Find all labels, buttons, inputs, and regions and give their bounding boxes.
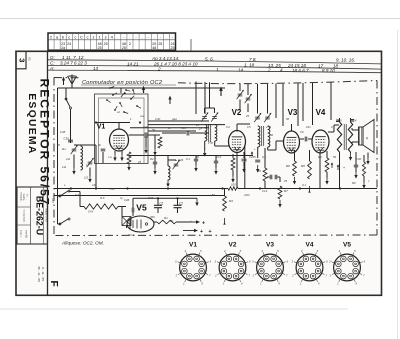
grounds mid [145, 146, 147, 150]
svg-text:pad: pad [171, 117, 177, 121]
svg-text:B.: B. [365, 136, 369, 139]
svg-text:111: 111 [62, 147, 67, 151]
ground d2 [195, 164, 197, 168]
svg-text:7 8.: 7 8. [249, 57, 257, 62]
wire V1 plate [118, 123, 120, 130]
wire top feed e [330, 82, 332, 120]
svg-text:1: 1 [216, 67, 219, 72]
speaker hatch [359, 127, 361, 145]
wire CV1 down [73, 155, 75, 169]
svg-text:C38: C38 [60, 130, 66, 134]
svg-text:1 11. 7. 12.: 1 11. 7. 12. [62, 55, 85, 60]
title block divider [30, 187, 32, 244]
svg-text:25: 25 [283, 179, 288, 183]
svg-text:Ao 3.4.13.14.: Ao 3.4.13.14. [151, 56, 179, 61]
speaker frame [359, 127, 364, 145]
svg-text:20: 20 [56, 143, 61, 147]
svg-text:c38: c38 [92, 183, 97, 187]
schematic frame dashed border bottom [54, 234, 377, 237]
arrow mark top [220, 88, 222, 96]
variable capacitor CV1 [72, 148, 77, 150]
ground below resistor [128, 163, 130, 167]
IF2 secondary coil [268, 126, 270, 147]
svg-text:14: 14 [238, 67, 244, 72]
ground IF1 [204, 149, 206, 153]
wire R3 top [224, 189, 226, 197]
wire V2 cathode [236, 153, 238, 189]
svg-text:V3: V3 [266, 242, 274, 249]
wire V3 bottoms [294, 150, 296, 161]
svg-text:0,1: 0,1 [186, 157, 190, 161]
svg-text:5. 6.: 5. 6. [205, 56, 214, 61]
wire B+ bus left [54, 188, 229, 190]
svg-text:125: 125 [51, 198, 55, 203]
capacitor C36 [68, 139, 73, 141]
wire IF2 down [257, 147, 259, 158]
tube socket V5 [334, 254, 361, 281]
mains switch upper [60, 191, 68, 196]
capacitor d2 [194, 158, 198, 160]
svg-text:111: 111 [66, 157, 71, 161]
svg-text:C: C [80, 35, 83, 40]
capacitor OT a [336, 119, 340, 121]
wire antenna lead [71, 83, 73, 88]
band switch contacts [106, 99, 108, 101]
pilot lamp [122, 217, 131, 226]
capacitor C205 [255, 159, 260, 161]
svg-text:C26: C26 [178, 158, 184, 162]
svg-text:V3: V3 [288, 108, 298, 117]
wire V2 k r [232, 154, 234, 158]
capacitor V4 grid [304, 137, 306, 142]
svg-text:.: . [142, 35, 143, 40]
svg-text:OC2: OC2 [128, 233, 134, 237]
svg-text:l.p: l.p [120, 196, 123, 200]
wire top bus [58, 87, 226, 89]
svg-text:10n: 10n [306, 125, 311, 129]
socket pin labels V2 [224, 279, 226, 282]
ground d4 [355, 171, 357, 175]
svg-text:R1: R1 [170, 219, 174, 223]
tube socket V4 [296, 254, 323, 281]
wire V2 bypass [243, 152, 245, 158]
svg-text:R7: R7 [284, 189, 288, 193]
wire V4 top [312, 83, 314, 125]
socket pin labels V3 [262, 279, 264, 282]
resistor R7 [278, 186, 282, 199]
ground V1 cathode [114, 154, 116, 158]
wire V1 cathode [114, 151, 116, 154]
svg-text:mayo-5-55: mayo-5-55 [45, 208, 49, 222]
svg-text:2: 2 [157, 67, 161, 72]
variable capacitor osc [174, 163, 179, 165]
svg-text:s2: s2 [117, 110, 120, 114]
svg-text:+: + [202, 221, 205, 227]
capacitor pair V3 [269, 175, 271, 180]
svg-text:R8: R8 [301, 164, 305, 168]
wire HT bus [152, 197, 197, 199]
wire R1 to arrow [176, 221, 189, 223]
socket pin labels V4 [301, 279, 303, 282]
wire d3 [215, 156, 217, 162]
capacitor C46 [131, 208, 133, 212]
IF2 primary coil [258, 126, 260, 147]
wire heater bus [54, 195, 226, 197]
svg-text:Comprobado: Comprobado [23, 210, 26, 223]
svg-text:C1: C1 [160, 201, 164, 205]
tube V5 [127, 216, 154, 232]
socket pin labels V5 [339, 279, 341, 282]
svg-text:c: c [74, 35, 76, 40]
wire IF2 sec to V3 [267, 147, 269, 150]
wire top feed ab [195, 108, 197, 114]
wire CV2 down [89, 168, 91, 177]
svg-text:5Y3: 5Y3 [148, 196, 153, 200]
wire d4 [355, 160, 357, 165]
svg-text:Dibujado: Dibujado [20, 193, 22, 202]
svg-text:c.a: c.a [108, 155, 112, 159]
wire C1 [157, 198, 159, 205]
svg-text:V5: V5 [136, 203, 147, 213]
IF1 core [208, 124, 210, 142]
wire speaker leads [352, 129, 359, 131]
svg-text:c: c [86, 35, 88, 40]
resistor R5 [263, 168, 267, 181]
svg-text:110: 110 [110, 187, 115, 191]
svg-text:14 21: 14 21 [127, 61, 139, 66]
wire B+ bus right [238, 188, 377, 190]
title block frame [17, 187, 48, 244]
tube V4 [312, 130, 329, 153]
svg-text:C10: C10 [181, 126, 187, 130]
svg-text:8 - 11 - 55: 8 - 11 - 55 [41, 267, 45, 281]
ground caps [196, 199, 198, 203]
svg-text:+: + [200, 229, 203, 235]
wire C2 [177, 198, 179, 205]
svg-text:R6: R6 [286, 164, 290, 168]
resistor below V1 [127, 152, 131, 164]
resistor R on bus [228, 187, 238, 191]
svg-text:0,1: 0,1 [302, 183, 306, 187]
wire cap pair [267, 176, 270, 178]
trimmer IF1 primary [202, 116, 207, 118]
wire V5 anode [154, 221, 157, 223]
svg-text:F: F [48, 280, 60, 287]
svg-text:AOV: AOV [243, 193, 251, 197]
wire IF1 top [204, 108, 206, 113]
trimmer IF2 secondary [265, 116, 270, 118]
svg-text:25: 25 [98, 46, 102, 50]
svg-text:C4: C4 [226, 125, 230, 129]
svg-text:s: s [105, 35, 107, 40]
svg-text:6,3: 6,3 [75, 193, 79, 197]
tube V2 [229, 131, 246, 153]
svg-text:3: 3 [18, 58, 27, 62]
svg-text:R9: R9 [318, 155, 322, 159]
svg-text:nov-55: nov-55 [25, 230, 28, 238]
svg-text:2: 2 [129, 42, 131, 46]
title block cell lines [17, 206, 31, 208]
svg-text:1ªFI: 1ªFI [208, 141, 213, 145]
resistor R3 [223, 196, 227, 211]
wire V4 grid [300, 138, 304, 140]
capacitor coupling V1 [144, 133, 146, 138]
svg-text:50: 50 [270, 133, 274, 137]
wire V2 top feeds [239, 84, 241, 92]
svg-text:G:: G: [50, 55, 56, 60]
capacitor d1 [153, 161, 157, 163]
wire antenna drop [65, 88, 67, 99]
junction dots [70, 187, 72, 189]
bold arrow 1 [143, 89, 145, 94]
svg-text:Inspecc.: Inspecc. [20, 230, 22, 239]
trimmer IF1 secondary [212, 116, 217, 118]
wire col x96 [95, 145, 97, 189]
svg-text:c: c [68, 35, 70, 40]
arrow R3 bottom [224, 218, 226, 223]
svg-text:.: . [154, 35, 155, 40]
wire V3 plate [291, 124, 293, 131]
wire screen bus [129, 155, 253, 157]
svg-text:ESQUEMA: ESQUEMA [26, 93, 37, 154]
arrow V4 cath [331, 163, 333, 168]
annotation underline [81, 84, 176, 86]
wire V4 cathode [319, 152, 321, 161]
wire osc pad [102, 152, 104, 163]
svg-text:1. 18: 1. 18 [244, 63, 255, 68]
wire top feed b [204, 82, 206, 112]
wire bundle c [130, 127, 209, 129]
svg-text:C44: C44 [143, 125, 149, 129]
svg-text:.: . [166, 35, 167, 40]
svg-text:C36: C36 [64, 137, 70, 141]
svg-text:25: 25 [170, 46, 174, 50]
wire choke to V5 [122, 206, 126, 208]
wire IF2 tops [257, 84, 259, 114]
wire S1a drop [70, 109, 72, 143]
band switch arrow [121, 92, 125, 97]
svg-text:25: 25 [158, 42, 162, 46]
wire C46 up [132, 198, 134, 208]
svg-text:9. 10. 16.: 9. 10. 16. [336, 58, 355, 63]
svg-text:R3: R3 [229, 199, 233, 203]
capacitor d3 [214, 160, 218, 162]
wire ground caps stub [196, 197, 198, 200]
capacitor C44 [186, 131, 188, 136]
svg-text:100: 100 [231, 182, 236, 186]
capacitor C2 [174, 204, 182, 206]
svg-text:R2: R2 [150, 157, 154, 161]
wire osc link [167, 160, 169, 166]
svg-text:V4: V4 [316, 108, 326, 117]
svg-text:C30: C30 [356, 157, 362, 161]
schematic frame dashed border left [54, 77, 80, 79]
svg-text:C12: C12 [216, 155, 222, 159]
capacitor OT b [350, 119, 354, 121]
wire mains upper [58, 195, 61, 197]
wire V5 top [132, 212, 134, 216]
arrow R8 [309, 186, 311, 191]
wire V4 plate to OT [328, 131, 334, 133]
wire x245 drop [244, 146, 246, 189]
arrow mark antenna [63, 79, 65, 86]
ground OT [350, 153, 352, 157]
svg-text:+: + [343, 166, 345, 170]
resistor V2 cathode [231, 158, 235, 170]
wire V3 top [282, 84, 284, 126]
svg-text:1n: 1n [168, 126, 172, 130]
IF1 secondary coil [215, 125, 217, 142]
svg-text:50: 50 [286, 117, 290, 121]
svg-text:C6: C6 [300, 130, 304, 134]
wire speaker ground [367, 153, 369, 159]
svg-text:C5: C5 [247, 125, 251, 129]
tube socket V2 [219, 254, 246, 281]
wire mid drops [145, 137, 147, 147]
svg-text:3n: 3n [98, 143, 102, 147]
ground V2 cath [232, 175, 234, 179]
svg-text:V2: V2 [229, 242, 237, 249]
svg-text:2a: 2a [61, 46, 65, 50]
ground right r [363, 181, 365, 185]
ground C205 [257, 165, 259, 169]
svg-text:8 9 10: 8 9 10 [322, 68, 335, 73]
svg-text:5 W: 5 W [88, 210, 93, 214]
svg-text:V1: V1 [97, 124, 106, 131]
trimmer above V2 b [246, 97, 251, 99]
wire bundle a [148, 120, 209, 122]
svg-text:4: 4 [280, 68, 283, 73]
arrow HT b [183, 230, 194, 232]
IF2 core [261, 126, 263, 146]
svg-text:L2: L2 [86, 163, 90, 167]
svg-text:25: 25 [137, 160, 142, 164]
ground d1 [154, 167, 156, 171]
svg-text:V5: V5 [343, 242, 351, 249]
IF1 primary coil [205, 125, 207, 142]
wire right r [363, 155, 365, 162]
wire osc drop [167, 156, 169, 161]
sheet number box [16, 51, 26, 69]
svg-text:R5: R5 [257, 169, 261, 173]
variable capacitor CV2 [88, 161, 93, 163]
trimmer IF2 primary [255, 116, 260, 118]
wire lamp [121, 207, 123, 217]
wire R5 [264, 148, 266, 168]
wire IF1 primary down [204, 141, 206, 150]
ground R6 [294, 177, 296, 181]
resistor R8 [308, 161, 312, 179]
svg-text:osc: osc [140, 114, 145, 118]
resistor R6 [293, 161, 297, 176]
wire coupling V1 [129, 134, 145, 136]
ground R7 [279, 200, 281, 204]
tube V1 [110, 129, 129, 151]
svg-text:z: z [93, 35, 95, 40]
plus mark v2 [251, 152, 253, 156]
svg-text:BE-262-U: BE-262-U [34, 196, 44, 235]
svg-text:0,1: 0,1 [331, 125, 335, 129]
wire OT bottom [339, 152, 341, 155]
svg-text:25: 25 [195, 123, 200, 127]
svg-text:111: 111 [62, 165, 67, 169]
output transformer primary [337, 122, 341, 152]
svg-text:24: 24 [67, 42, 71, 46]
svg-text:C2: C2 [179, 201, 183, 205]
svg-text:25: 25 [245, 114, 250, 118]
wire V4 bias [326, 151, 328, 158]
svg-text:C205: C205 [249, 155, 256, 159]
svg-text:3.24 7 6 22 3: 3.24 7 6 22 3 [60, 61, 87, 66]
wire top feed d [302, 83, 304, 121]
svg-text:+: + [209, 229, 212, 235]
wire switch to top [120, 88, 122, 93]
ground below CV1 [73, 167, 75, 171]
svg-text:+80: +80 [210, 193, 215, 197]
wire right col [355, 152, 357, 160]
svg-text:30 - 11 - 55: 30 - 11 - 55 [37, 266, 41, 282]
resistor V4 bias [325, 158, 329, 172]
svg-text:R1: R1 [164, 216, 168, 220]
svg-text:.: . [117, 35, 118, 40]
wire top feed c [275, 84, 277, 119]
tube socket V1 [180, 254, 207, 281]
capacitor V2 bypass [242, 158, 247, 160]
wire top feed a [195, 82, 197, 109]
ground d3 [215, 167, 217, 171]
resistor grid V2 [158, 137, 162, 148]
svg-text:R.F.: R.F. [100, 196, 105, 200]
wire bundle b [148, 124, 225, 126]
wire bundle d [148, 130, 196, 132]
svg-text:1/2: 1/2 [84, 176, 89, 180]
trimmer above V2 a [238, 93, 243, 95]
capacitor osc pad [101, 148, 106, 150]
socket pin labels V1 [185, 279, 187, 282]
capacitor C1 [154, 204, 162, 206]
svg-text:50: 50 [196, 155, 200, 159]
svg-text:2: 2 [267, 68, 271, 73]
ground V2 bypass [243, 165, 245, 169]
wire IF1 feed [209, 82, 211, 108]
wire IF1 sec to V2 [214, 141, 216, 146]
tube socket V3 [257, 254, 284, 281]
wire mains vertical [57, 196, 59, 225]
resistor right [362, 162, 365, 176]
svg-text:48: 48 [152, 46, 156, 50]
svg-text:18 6 6 7: 18 6 6 7 [292, 68, 309, 73]
wire C44 [162, 132, 186, 134]
svg-text:2ªFI: 2ªFI [265, 125, 271, 129]
ground osc coil [167, 180, 169, 184]
switch S1a [66, 99, 70, 107]
capacitor d4 [354, 164, 358, 166]
tube V3 [284, 131, 300, 153]
oscillator section box [95, 94, 149, 164]
filter choke [84, 204, 118, 209]
svg-text:25: 25 [104, 42, 108, 46]
wire d1 [154, 156, 156, 163]
schematic frame dashed border right [376, 81, 378, 236]
svg-text:50: 50 [333, 155, 337, 159]
svg-text:V4: V4 [306, 242, 314, 249]
ground V1 cathode 2 [121, 154, 123, 158]
svg-text:V1: V1 [189, 242, 197, 249]
wire OT top [339, 118, 341, 122]
svg-text:350: 350 [150, 215, 155, 219]
coil osc [168, 166, 170, 180]
coil L1 [81, 146, 83, 170]
